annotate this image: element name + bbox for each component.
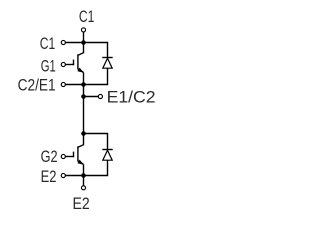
wire: G2 row <box>63 156 74 158</box>
svg-text:C1: C1 <box>79 7 95 26</box>
wire: node E2 to bottom terminal <box>83 176 85 187</box>
terminal circle C2/E1 <box>61 82 65 86</box>
wire: D2 anode to node E2 <box>84 160 108 175</box>
diode D2 triangle <box>103 150 112 160</box>
terminal circle C1 top <box>81 28 85 32</box>
IGBT T1 collector lead <box>78 43 84 56</box>
wire: top terminal stub to collector rail <box>83 31 85 43</box>
IGBT T2 body bar <box>77 146 79 161</box>
node: T2 collector junction <box>81 131 86 136</box>
wire: collector rail to diode D1 cathode <box>84 43 108 58</box>
diode D1 triangle <box>103 58 112 68</box>
node: collector rail junction <box>81 40 86 45</box>
terminal circle E2 <box>61 173 65 177</box>
diode D1 cathode bar <box>102 57 112 59</box>
svg-text:E2: E2 <box>41 167 57 186</box>
svg-text:E1/C2: E1/C2 <box>107 87 156 106</box>
svg-text:E2: E2 <box>73 194 90 213</box>
wire: G1 row <box>63 64 74 66</box>
svg-text:G2: G2 <box>41 147 58 166</box>
IGBT T1 emitter lead with arrow <box>78 69 84 72</box>
wire: E1/C2 row <box>84 96 101 98</box>
terminal circle G1 <box>61 62 65 66</box>
IGBT T2 emitter lead with arrow <box>78 161 84 164</box>
diode D2 cathode bar <box>102 149 112 151</box>
node: E2 junction <box>81 173 86 178</box>
IGBT T1 body bar <box>77 54 79 69</box>
terminal circle C1 left <box>61 40 65 44</box>
terminal circle E1/C2 <box>98 94 102 98</box>
wire: bus node A to node B to T2 collector <box>83 85 85 134</box>
wire: T2 emitter to node E2 <box>83 164 85 175</box>
svg-text:C2/E1: C2/E1 <box>18 76 56 95</box>
node A: C2/E1 junction <box>81 82 86 87</box>
svg-text:C1: C1 <box>40 34 56 53</box>
wire: E2 row <box>63 175 83 177</box>
IGBT T2 collector lead <box>78 134 84 148</box>
terminal circle E2 bottom <box>81 186 85 190</box>
svg-text:G1: G1 <box>41 56 56 75</box>
wire: C1 row <box>63 42 83 44</box>
wire: D1 anode to node A <box>84 68 108 84</box>
terminal circle G2 <box>61 154 65 158</box>
node B: midpoint junction <box>81 94 86 99</box>
wire: C2/E1 row <box>63 84 83 86</box>
IGBT T2 gate bar <box>73 152 75 158</box>
wire: T2 collector rail to diode D2 cathode <box>84 134 108 150</box>
wire: T1 emitter to node A <box>83 72 85 84</box>
IGBT T1 gate bar <box>73 60 75 66</box>
